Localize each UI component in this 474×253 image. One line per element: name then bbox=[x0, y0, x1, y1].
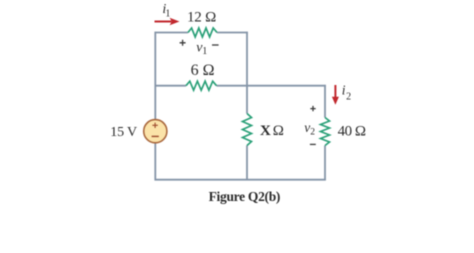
svg-text:Figure Q2(b): Figure Q2(b) bbox=[209, 189, 281, 204]
svg-text:Ω: Ω bbox=[273, 123, 284, 139]
svg-text:X: X bbox=[260, 123, 271, 139]
svg-text:12 Ω: 12 Ω bbox=[187, 10, 216, 26]
svg-text:40 Ω: 40 Ω bbox=[338, 123, 366, 139]
svg-text:1: 1 bbox=[165, 9, 170, 20]
svg-text:1: 1 bbox=[202, 46, 207, 57]
svg-text:2: 2 bbox=[310, 127, 315, 137]
svg-text:6 Ω: 6 Ω bbox=[191, 62, 215, 79]
svg-text:15 V: 15 V bbox=[110, 125, 137, 140]
svg-text:2: 2 bbox=[346, 92, 351, 103]
